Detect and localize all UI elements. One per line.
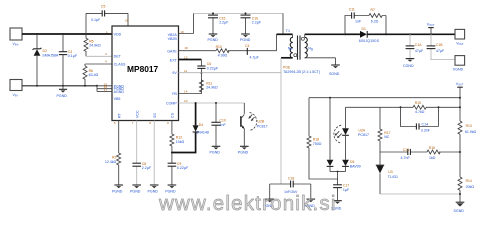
wire primary bottom lead	[281, 57, 293, 59]
terminal VOUT	[455, 29, 465, 46]
ground PGND under C9	[165, 185, 176, 193]
svg-text:PGND: PGND	[57, 94, 68, 98]
svg-text:R14: R14	[466, 179, 472, 183]
ground PGND under C16	[240, 34, 251, 42]
wire CLASS pin line	[85, 63, 112, 65]
svg-text:C5: C5	[101, 5, 105, 9]
resistor R18 750	[307, 98, 338, 179]
TVS diode D2 SMAJ58A	[33, 34, 59, 86]
resistor R17 1k	[378, 107, 391, 165]
svg-text:0.1µF: 0.1µF	[68, 54, 78, 58]
svg-text:1µF: 1µF	[343, 188, 350, 192]
wire primary top lead	[277, 33, 293, 35]
ground SGND under C1A	[403, 59, 414, 68]
svg-text:PGND: PGND	[148, 189, 159, 193]
node snubber right	[385, 33, 387, 35]
capacitor C5 0.1uF	[86, 5, 128, 26]
node rail A junction	[459, 97, 461, 99]
svg-text:4.7kΩ: 4.7kΩ	[415, 110, 425, 114]
svg-text:VB5: VB5	[114, 97, 121, 101]
svg-text:1N4148: 1N4148	[196, 131, 209, 135]
op-amp U1 MP8017 IC body	[112, 26, 179, 121]
svg-text:SS: SS	[153, 113, 157, 118]
capacitor C15 2.2uF	[208, 13, 229, 33]
wire D5 link	[330, 171, 346, 173]
svg-text:TA2994-2B (2:1:1.5CT): TA2994-2B (2:1:1.5CT)	[283, 70, 320, 74]
terminal VGND	[453, 56, 465, 72]
wire GATE pin line with R10 C4	[179, 50, 277, 52]
svg-text:PC817: PC817	[257, 124, 268, 128]
svg-text:C13: C13	[403, 148, 409, 152]
wire output line	[410, 33, 455, 35]
ground PGND under C15	[208, 34, 219, 42]
svg-text:12.4kΩ: 12.4kΩ	[105, 160, 117, 164]
svg-text:600JQ150S: 600JQ150S	[359, 39, 380, 43]
ground PGND under R3	[112, 185, 123, 193]
svg-text:CLASS: CLASS	[114, 62, 126, 66]
wire secondary bottom lead	[305, 58, 336, 65]
svg-text:C4: C4	[245, 44, 249, 48]
svg-text:1: 1	[106, 30, 108, 34]
svg-text:CS: CS	[171, 112, 175, 118]
transistor U2B PC817 optocoupler output	[241, 103, 268, 146]
svg-text:U2B: U2B	[258, 119, 265, 123]
svg-text:DET: DET	[114, 55, 122, 59]
wire feedback rail A	[309, 97, 460, 99]
terminal VIN+	[10, 28, 22, 47]
node R5 top	[85, 33, 87, 35]
node C10	[215, 102, 217, 104]
svg-text:C17: C17	[343, 183, 349, 187]
wire top input rail	[22, 33, 112, 35]
svg-text:4.7µF: 4.7µF	[250, 55, 260, 59]
resistor R7 6.2 snubber	[369, 8, 386, 34]
node TL431 anode junction	[459, 193, 461, 195]
svg-text:C1B: C1B	[436, 43, 443, 47]
wire COMP pin line	[179, 102, 245, 104]
node PGND pin stub	[96, 85, 112, 92]
resistor R5 24.9k	[84, 34, 101, 56]
resistor R13 61.9k	[458, 121, 477, 177]
capacitor C11 1nF snubber	[345, 8, 369, 35]
resistor R6 class	[83, 64, 99, 87]
capacitor C6 0.22uF	[197, 60, 219, 94]
svg-text:RT: RT	[117, 112, 121, 118]
svg-text:24.9kΩ: 24.9kΩ	[89, 44, 101, 48]
wire top auxiliary rail	[194, 12, 284, 14]
svg-text:AGND: AGND	[114, 90, 125, 94]
transformer T1 secondary winding Ns	[305, 34, 314, 57]
svg-text:20kΩ: 20kΩ	[466, 185, 475, 189]
ground PGND under C18 left	[263, 199, 274, 208]
svg-text:PC817: PC817	[358, 133, 369, 137]
svg-text:5: 5	[114, 121, 116, 125]
svg-text:BAV99: BAV99	[350, 164, 361, 168]
node C17 stub	[337, 171, 339, 173]
svg-text:14: 14	[184, 90, 188, 94]
svg-text:FB: FB	[172, 92, 177, 96]
svg-text:3.3nF: 3.3nF	[421, 129, 431, 133]
svg-text:750Ω: 750Ω	[313, 142, 322, 146]
svg-text:17: 17	[104, 88, 108, 92]
capacitor C1A 47uF	[406, 34, 424, 58]
resistor R15 on rail B	[413, 101, 426, 114]
svg-text:9: 9	[167, 121, 169, 125]
svg-text:1kΩ: 1kΩ	[429, 156, 436, 160]
svg-text:VCC: VCC	[135, 110, 139, 118]
node C16	[245, 12, 247, 14]
wire riser to C5	[85, 13, 87, 34]
svg-text:VIN-: VIN-	[13, 93, 19, 98]
node D5 left branch	[329, 97, 331, 99]
transformer T1 primary polarity dot	[294, 54, 297, 57]
svg-text:SMAJ58A: SMAJ58A	[42, 53, 59, 57]
svg-text:1nF: 1nF	[220, 123, 227, 127]
capacitor C14 3.3nF parallel loop	[401, 107, 439, 132]
node D2 bottom	[36, 85, 38, 87]
svg-text:11: 11	[184, 69, 187, 73]
svg-text:SGND: SGND	[329, 72, 340, 76]
node D2 top	[36, 33, 38, 35]
wire reference line C	[380, 151, 460, 153]
capacitor C3 0.1uF	[59, 34, 78, 86]
capacitor C16 2.2uF	[241, 13, 262, 33]
node Vout arrow	[430, 33, 432, 35]
svg-text:SGND: SGND	[454, 209, 465, 213]
svg-text:PGND: PGND	[208, 38, 219, 42]
svg-text:R10: R10	[216, 45, 222, 49]
wire VB2 pin to top rail riser	[179, 13, 194, 33]
resistor R12 10k	[170, 121, 185, 153]
node COMP thick branch	[195, 102, 197, 104]
svg-text:6.2Ω: 6.2Ω	[371, 20, 379, 24]
svg-text:C10: C10	[220, 118, 226, 122]
wire riser GATE line to primary top	[276, 34, 278, 50]
svg-text:C18: C18	[288, 176, 294, 180]
svg-text:MP8017: MP8017	[127, 64, 159, 74]
svg-text:PGND: PGND	[238, 151, 249, 155]
node C3 top	[62, 33, 64, 35]
svg-text:COMP: COMP	[166, 102, 177, 106]
diode D4 1N4148	[172, 103, 209, 153]
svg-text:10kΩ: 10kΩ	[176, 140, 185, 144]
svg-text:47µF: 47µF	[436, 49, 445, 53]
svg-text:2.2µF: 2.2µF	[142, 166, 152, 170]
resistor R3 12.4k bottom branch	[105, 121, 121, 185]
transformer T1 secondary polarity dot	[301, 37, 304, 40]
diode D5 BAV99 right	[342, 140, 361, 172]
node C3 bottom	[62, 85, 64, 87]
capacitor C18 Y-cap bridge	[270, 176, 311, 198]
svg-text:CGND: CGND	[403, 64, 414, 68]
svg-text:D1: D1	[362, 27, 366, 31]
transformer T1 primary winding Np	[288, 34, 294, 58]
wire SS branch	[153, 121, 155, 185]
wire feedback rail B	[346, 106, 461, 108]
resistor R10 4.99	[216, 45, 230, 57]
svg-text:PGND: PGND	[130, 189, 141, 193]
capacitor C10 1nF	[211, 103, 226, 146]
svg-text:3: 3	[105, 52, 107, 56]
svg-text:C1A: C1A	[415, 43, 422, 47]
ground SGND secondary	[329, 65, 340, 76]
svg-text:R16: R16	[429, 146, 435, 150]
wire secondary top lead	[305, 33, 345, 35]
svg-text:GATE: GATE	[167, 49, 177, 53]
ground PGND under C8	[130, 185, 141, 193]
svg-text:VDD: VDD	[114, 32, 122, 36]
svg-text:www.elektronik.si: www.elektronik.si	[158, 192, 337, 215]
svg-text:C14: C14	[422, 123, 429, 127]
svg-text:R15: R15	[415, 101, 421, 105]
svg-text:24.9kΩ: 24.9kΩ	[206, 86, 218, 90]
svg-text:PGND: PGND	[240, 38, 251, 42]
svg-text:EXT: EXT	[170, 58, 178, 62]
ground SGND under C18 right	[304, 199, 315, 208]
node divider mid	[459, 151, 461, 153]
svg-text:4.99Ω: 4.99Ω	[218, 53, 228, 57]
diode D1 600JQ150S rectifier	[345, 27, 410, 43]
shunt regulator U3 TL431	[376, 165, 398, 194]
svg-text:U3: U3	[388, 170, 392, 174]
svg-text:10: 10	[184, 99, 188, 103]
node C14 left	[400, 106, 402, 108]
svg-text:D4: D4	[199, 123, 203, 127]
capacitor C9 0.22uF	[168, 153, 189, 185]
capacitor C17 1uF	[333, 172, 350, 201]
svg-text:0.22µF: 0.22µF	[177, 166, 189, 170]
ground SGND under divider	[454, 202, 465, 213]
node divider top Vout arrow	[456, 82, 464, 121]
svg-text:TL431: TL431	[388, 175, 398, 179]
svg-text:20: 20	[125, 19, 129, 23]
wire EXT pin line to C6	[179, 59, 202, 61]
svg-text:VB2B: VB2B	[168, 37, 178, 41]
ground PGND under U2B	[238, 146, 249, 154]
svg-text:VIN+: VIN+	[13, 42, 20, 47]
svg-text:18: 18	[184, 46, 188, 50]
transformer T1 core	[298, 36, 301, 60]
wire 9V pin line to drain riser	[179, 72, 282, 74]
node C1A	[409, 33, 411, 35]
wire bottom input rail	[22, 85, 97, 87]
node snubber left	[344, 33, 346, 35]
ground PGND under C3	[57, 86, 68, 98]
wire rail drop to transformer top	[282, 13, 284, 34]
capacitor C8 2.2uF bottom branch	[132, 121, 151, 185]
svg-text:PGND: PGND	[112, 189, 123, 193]
capacitor C1B 47uF	[427, 34, 455, 59]
svg-text:R13: R13	[466, 124, 472, 128]
capacitor C13 on reference line	[401, 148, 411, 160]
resistor R16 on reference line	[427, 146, 440, 160]
svg-text:61.9kΩ: 61.9kΩ	[465, 130, 477, 134]
svg-text:4.7nF: 4.7nF	[401, 156, 411, 160]
LED U2A PC817 optocoupler input	[334, 107, 369, 143]
svg-text:VOUT: VOUT	[456, 42, 464, 47]
node R12 C9 junction	[171, 152, 173, 154]
svg-text:0.1µF: 0.1µF	[91, 18, 101, 22]
svg-text:VGND: VGND	[453, 67, 464, 71]
node C14 right	[438, 106, 440, 108]
svg-text:2.2µF: 2.2µF	[252, 20, 262, 24]
svg-text:63.4Ω: 63.4Ω	[89, 73, 99, 77]
node C15	[212, 12, 214, 14]
resistor R14 20k	[458, 177, 474, 202]
node Vout label output rail	[427, 22, 435, 34]
transformer T1 part number	[283, 66, 320, 74]
capacitor C4 4.7uF	[245, 44, 260, 59]
terminal VIN-	[10, 80, 22, 98]
svg-text:R7: R7	[371, 8, 375, 12]
svg-text:T1: T1	[286, 29, 290, 33]
svg-text:D5: D5	[350, 160, 354, 164]
svg-text:7: 7	[132, 121, 134, 125]
svg-text:C11: C11	[349, 8, 355, 12]
svg-text:2.2µF: 2.2µF	[219, 20, 229, 24]
wire R11 return to FB pin	[179, 92, 202, 94]
svg-text:PGND: PGND	[210, 151, 221, 155]
ground PGND under C10	[210, 146, 221, 154]
svg-text:NC: NC	[384, 135, 390, 139]
ground SGND under C17	[331, 201, 342, 211]
svg-text:8: 8	[149, 121, 151, 125]
wire drain riser down to Y-cap	[280, 58, 282, 184]
node rail B junction	[459, 106, 461, 108]
svg-text:9V: 9V	[172, 71, 177, 75]
node C6 R11 and 9V line	[200, 72, 202, 74]
svg-text:47µF: 47µF	[415, 49, 424, 53]
wire DET pin line	[86, 55, 112, 57]
ground PGND under SS wire	[148, 185, 159, 193]
resistor R11 24.9k	[199, 80, 218, 92]
diode D5 BAV99 left	[327, 98, 334, 172]
wire TL431 anode to SGND rail	[380, 193, 460, 195]
svg-text:4: 4	[105, 60, 107, 64]
svg-text:0.22µF: 0.22µF	[207, 66, 219, 70]
svg-text:U2A: U2A	[359, 128, 366, 132]
svg-text:1nF: 1nF	[355, 20, 362, 24]
